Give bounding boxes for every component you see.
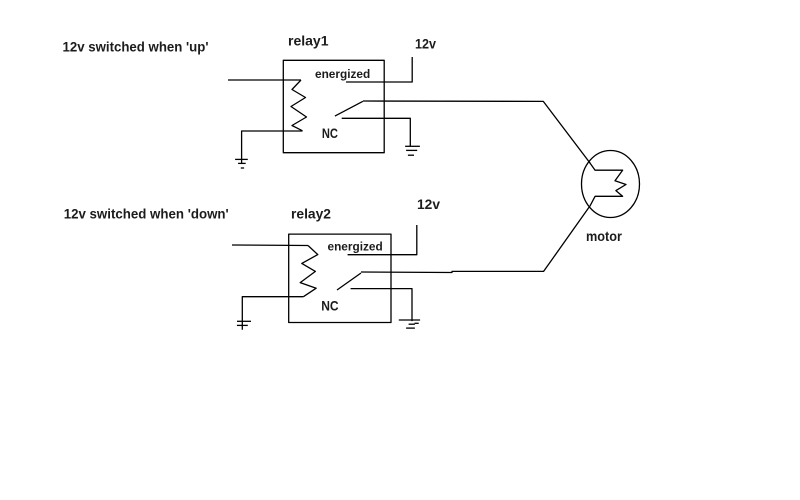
svg-text:relay2: relay2 [291, 205, 331, 221]
svg-text:12v: 12v [417, 196, 440, 212]
wire: relay1 coil to ground [242, 131, 303, 163]
svg-text:12v: 12v [415, 36, 436, 52]
wire: 'down' signal into relay2 coil [232, 244, 308, 247]
relay2 switch blade [337, 273, 361, 290]
ground: relay1 NC [405, 146, 420, 155]
relay2 box [289, 234, 391, 322]
wire: relay2 common to motor [361, 206, 590, 273]
ground: relay2 NC [399, 320, 420, 328]
wire: relay1 NC contact to ground [342, 118, 411, 146]
relay2 coil [300, 246, 318, 297]
motor M1 body [582, 151, 640, 218]
wire: 12v feed to relay2 energized contact [348, 225, 417, 255]
svg-text:motor: motor [586, 228, 622, 244]
ground: relay1 coil return [235, 159, 248, 168]
wire: relay1 common to motor [363, 101, 590, 163]
wire: relay2 NC contact to ground [351, 289, 412, 322]
svg-text:relay1: relay1 [288, 33, 329, 49]
motor winding [590, 162, 627, 206]
svg-text:NC: NC [322, 125, 338, 141]
ground: relay2 coil return [237, 321, 251, 325]
relay1 coil [291, 80, 307, 131]
wire: 12v feed to relay1 energized contact [346, 57, 412, 82]
wire: 'up' signal into relay1 coil [228, 79, 301, 81]
svg-text:12v switched when 'up': 12v switched when 'up' [63, 38, 209, 54]
svg-text:energized: energized [315, 67, 370, 81]
relay1 box [283, 60, 384, 152]
svg-text:NC: NC [321, 297, 338, 313]
relay1 switch blade [335, 101, 363, 116]
svg-text:energized: energized [328, 239, 383, 253]
svg-text:12v switched when 'down': 12v switched when 'down' [64, 206, 229, 222]
wire: relay2 coil to ground [242, 297, 303, 330]
